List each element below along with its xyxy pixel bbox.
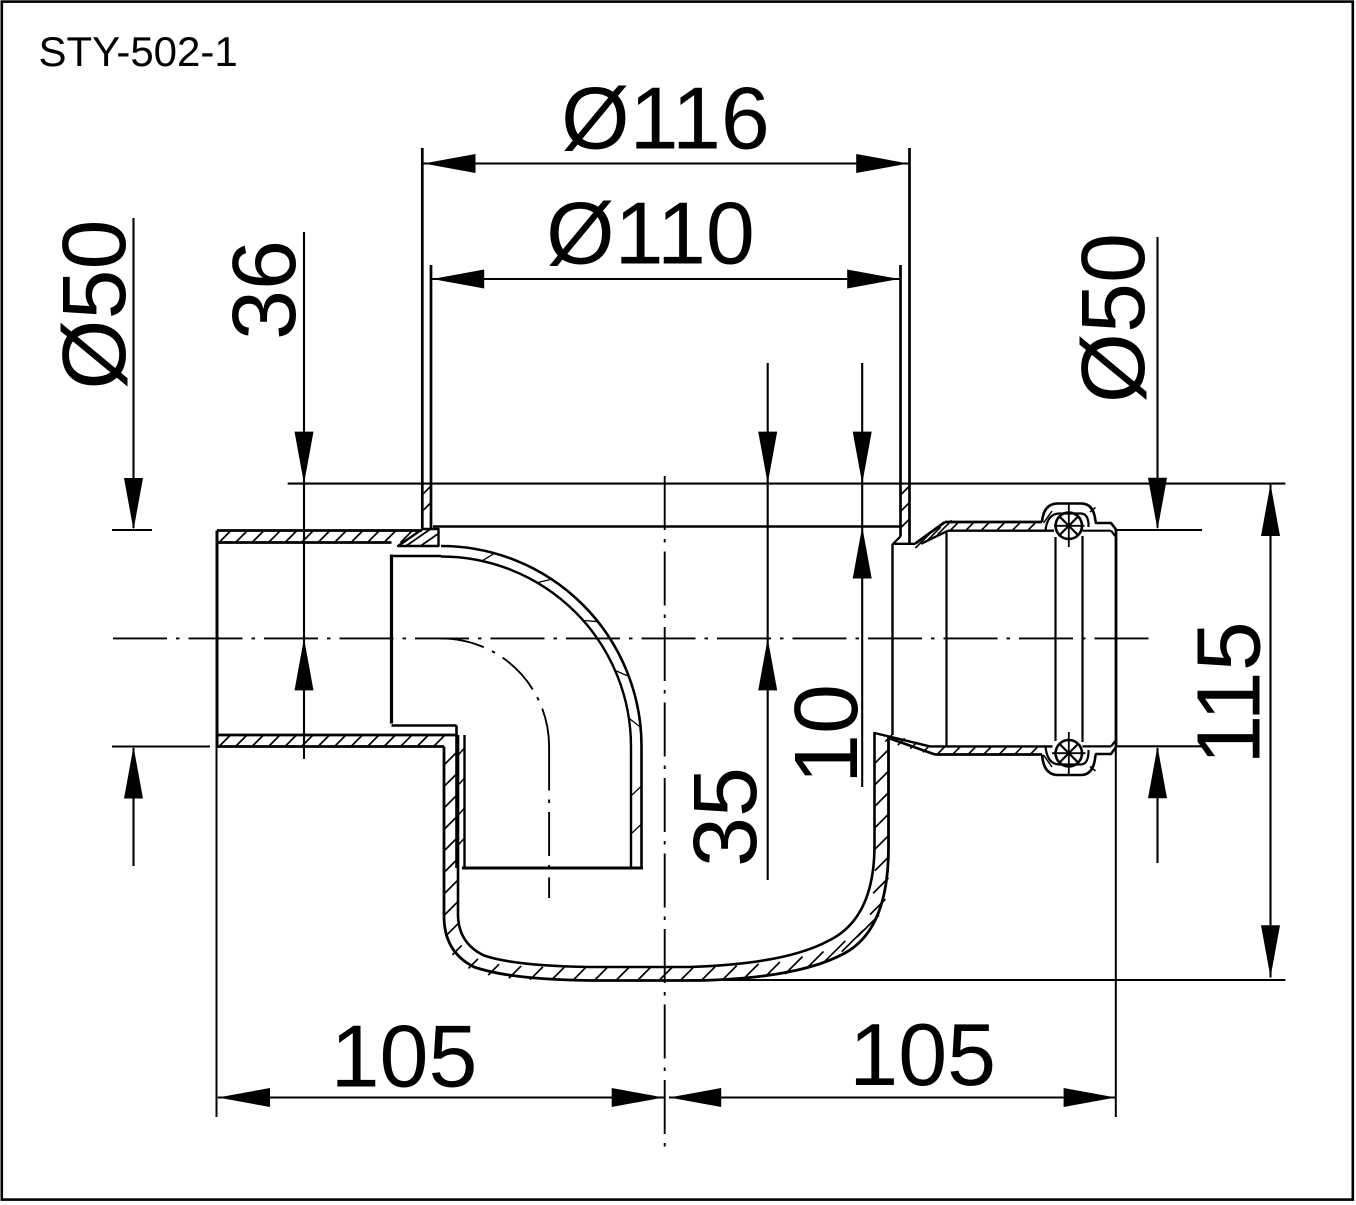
bowl outer wall bbox=[444, 737, 889, 981]
svg-text:Ø50: Ø50 bbox=[1064, 233, 1164, 403]
svg-text:105: 105 bbox=[849, 1005, 996, 1104]
socket right wall step bbox=[893, 537, 901, 544]
elbow flange bbox=[398, 529, 439, 546]
dim 105R right arrow bbox=[1064, 1088, 1116, 1107]
dim line d50R lower bbox=[1156, 748, 1158, 863]
funnel top slope hatch bbox=[915, 534, 929, 548]
dim line 116 bbox=[423, 162, 909, 164]
elbow outer bend wall bbox=[441, 546, 642, 868]
elbow flange hatch bbox=[406, 529, 431, 546]
dim 105R left arrow bbox=[669, 1088, 721, 1107]
outlet barrel bottom outer bbox=[935, 753, 1042, 756]
svg-text:35: 35 bbox=[676, 767, 776, 867]
socket left wall inner line (ext of dim 110) bbox=[430, 265, 433, 528]
svg-text:105: 105 bbox=[331, 1007, 478, 1106]
dim d50L tick top bbox=[112, 529, 152, 531]
dim line 10 bbox=[861, 363, 863, 787]
svg-text:Ø116: Ø116 bbox=[561, 69, 770, 168]
boss top inner bbox=[1046, 514, 1089, 531]
elbow inlet mouth edge bbox=[390, 555, 393, 724]
outlet end face ext down bbox=[1115, 747, 1117, 1117]
socket left wall hatch bbox=[422, 486, 431, 495]
elbow inlet bottom edge bbox=[392, 724, 457, 726]
socket right wall outer line (ext of dim 116) bbox=[908, 148, 911, 544]
boss bottom shoulder hatch bbox=[1044, 755, 1053, 767]
dim d50L up arrow bbox=[124, 747, 143, 799]
mouth top bevel bbox=[1111, 531, 1116, 537]
dim d50R tick top bbox=[1116, 529, 1202, 531]
mouth bottom bevel bbox=[1111, 740, 1116, 746]
dim 110 right arrow bbox=[847, 270, 899, 289]
dim 10 up arrow bbox=[853, 527, 872, 579]
dim 105L left arrow bbox=[218, 1088, 270, 1107]
dim line 35 bbox=[767, 363, 769, 880]
dim d50R up arrow bbox=[1148, 746, 1167, 798]
elbow branch axis line bbox=[548, 747, 550, 899]
svg-text:10: 10 bbox=[777, 684, 877, 784]
funnel bottom slope hatch bbox=[885, 735, 892, 742]
funnel top inner slope bbox=[921, 531, 948, 544]
elbow inlet top edge bbox=[392, 555, 442, 557]
elbow outlet mouth edge bbox=[462, 867, 643, 870]
left inlet pipe top wall inner bbox=[217, 541, 392, 544]
svg-text:Ø110: Ø110 bbox=[546, 184, 755, 283]
dim 10 down arrow bbox=[853, 432, 872, 484]
dim 116 right arrow bbox=[856, 154, 908, 173]
dim line d50R upper bbox=[1156, 237, 1158, 528]
dim line 36 bbox=[303, 232, 305, 759]
svg-text:36: 36 bbox=[215, 240, 315, 340]
outlet barrel top outer bbox=[945, 521, 1042, 524]
svg-text:115: 115 bbox=[1180, 621, 1280, 764]
mouth bottom inner line bbox=[1083, 745, 1112, 747]
bowl bottom tangent ext line bbox=[690, 979, 1285, 981]
dim line 105R bbox=[669, 1096, 1116, 1098]
dim 36 down arrow bbox=[295, 432, 314, 484]
elbow downpipe left wall inner bbox=[463, 735, 465, 868]
elbow wall hatch bbox=[482, 553, 495, 561]
dim line 115 bbox=[1269, 484, 1271, 978]
O-ring groove right wall bbox=[1081, 536, 1083, 742]
vertical axis center line bbox=[664, 476, 666, 1150]
outlet bore shoulder line bbox=[945, 531, 947, 746]
O-ring top seal circle bbox=[1056, 513, 1082, 539]
left pipe top wall hatch bbox=[219, 531, 231, 543]
bowl inner wall bbox=[458, 732, 875, 967]
outlet barrel bottom inner bbox=[930, 745, 1053, 747]
dim line d50L lower bbox=[132, 748, 134, 866]
funnel top outer slope bbox=[916, 522, 946, 543]
elbow downpipe left wall outer bbox=[455, 726, 458, 869]
mouth top inner line bbox=[1083, 530, 1112, 532]
outlet barrel top inner bbox=[948, 530, 1054, 532]
dim line 110 bbox=[432, 278, 900, 280]
O-ring groove left wall bbox=[1054, 537, 1056, 741]
dim 115 down arrow bbox=[1261, 925, 1280, 977]
dim 110 left arrow bbox=[432, 270, 484, 289]
left inlet pipe end face bbox=[216, 531, 219, 747]
socket right wall hatch bbox=[901, 486, 910, 495]
O-ring bottom center lines bbox=[1068, 732, 1070, 775]
elbow branch axis arc bbox=[441, 638, 549, 746]
left inlet pipe top wall outer bbox=[217, 529, 422, 532]
boss bottom outer bbox=[1042, 747, 1116, 775]
socket right seat lip bbox=[893, 543, 916, 545]
dim line 105L bbox=[218, 1096, 664, 1098]
boss bottom inner bbox=[1046, 746, 1089, 764]
svg-text:Ø50: Ø50 bbox=[45, 219, 145, 389]
outlet barrel top hatch bbox=[950, 522, 959, 531]
O-ring bottom seal circle bbox=[1056, 740, 1082, 766]
left inlet pipe bottom wall inner bbox=[217, 734, 457, 737]
socket seat line bbox=[433, 525, 901, 527]
dim d50L down arrow bbox=[124, 478, 143, 530]
dim 105L right arrow bbox=[612, 1088, 664, 1107]
O-ring bottom X mark bbox=[1060, 744, 1079, 763]
left inlet pipe bottom wall outer bbox=[217, 745, 444, 748]
elbow inner bend wall bbox=[441, 557, 631, 869]
dim 116 left arrow bbox=[424, 154, 476, 173]
funnel bottom outer slope bbox=[889, 738, 936, 755]
dim d50R tick bottom bbox=[1116, 745, 1202, 747]
socket left wall outer line (ext of dim 116) bbox=[421, 148, 424, 528]
socket right wall inner line (ext of dim 110) bbox=[899, 265, 902, 537]
dim 35 down arrow bbox=[758, 432, 777, 484]
dim 35 up arrow bbox=[758, 638, 777, 690]
floor reference line bbox=[288, 483, 1286, 485]
funnel inner-left wall bbox=[891, 544, 893, 735]
left pipe bottom wall hatch bbox=[219, 735, 231, 747]
outlet barrel bottom hatch bbox=[937, 746, 945, 754]
outlet end face bbox=[1115, 530, 1118, 748]
dim d50L tick bottom bbox=[112, 745, 210, 747]
O-ring top center lines bbox=[1068, 504, 1070, 547]
boss top shoulder hatch bbox=[1044, 511, 1053, 523]
horizontal axis center line bbox=[113, 637, 1150, 639]
O-ring top X mark bbox=[1060, 517, 1079, 536]
svg-text:STY-502-1: STY-502-1 bbox=[39, 28, 238, 75]
dim line d50L upper bbox=[132, 218, 134, 528]
ext line 105L left bbox=[216, 747, 218, 1118]
dim 36 up arrow bbox=[295, 638, 314, 690]
boss top outer bbox=[1042, 504, 1116, 530]
dim 115 up arrow bbox=[1261, 484, 1280, 536]
funnel bottom inner slope bbox=[875, 733, 931, 746]
bowl wall hatch bbox=[445, 752, 458, 765]
dim d50R down arrow bbox=[1148, 478, 1167, 530]
